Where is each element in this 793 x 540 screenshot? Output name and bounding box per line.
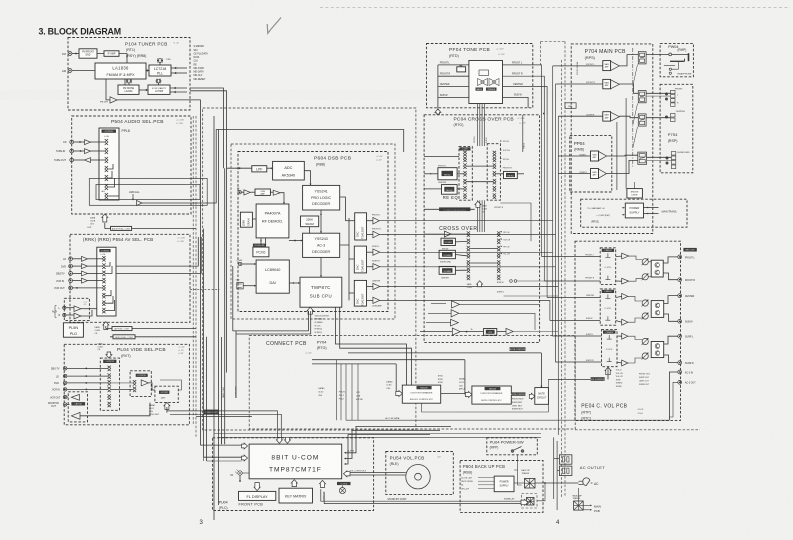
terminal AM input <box>68 69 72 73</box>
arrow control into audio pcb <box>102 214 108 222</box>
ic C-VOL front <box>600 248 616 285</box>
wire adc to yss241 <box>304 171 310 186</box>
block DAC TDA1305T 1 <box>355 213 367 240</box>
video right sub box <box>155 386 178 402</box>
wire ir to ucom <box>242 472 249 474</box>
wire cvol g1 links <box>616 255 622 257</box>
wire subcpu to expander bus 2 <box>340 307 412 385</box>
buffer dac LFE <box>373 297 380 303</box>
switch symbol <box>511 450 514 453</box>
jack sleeve bar <box>688 53 690 61</box>
arrow into box1 <box>396 391 403 397</box>
label AUDIO FUNC CONT <box>111 226 132 230</box>
buffer TAPE-IN <box>85 149 91 154</box>
wire corridor v7 tape cont <box>224 168 226 444</box>
switch bank upper right <box>493 151 496 156</box>
wire dac1 to buffers <box>367 220 373 222</box>
pcb P804 BACK UP PCB outline <box>460 461 543 513</box>
wire cvol front r in <box>544 280 600 282</box>
wire tone front r in <box>438 75 469 77</box>
label av selector IC <box>99 249 110 252</box>
arrow key matrix to ucom <box>291 480 297 487</box>
wire plug feed <box>545 482 579 484</box>
wire corridor right dashed pair top <box>541 41 566 43</box>
wire lower xover links <box>424 233 444 235</box>
wire bus h3 <box>312 363 396 365</box>
ic C-VOL center <box>600 289 616 325</box>
wire opt to dai <box>243 285 256 287</box>
wire cols link upper <box>467 165 493 167</box>
buffer audio out <box>137 200 143 205</box>
block TMP87C SUB CPU <box>300 277 342 307</box>
buffer CD <box>85 140 91 145</box>
switch bank video selector <box>108 366 111 371</box>
block SYNC PARITY <box>148 85 170 94</box>
wire dash right av <box>190 288 219 290</box>
pcb PL04 VIDE SEL PCB outline <box>64 344 189 425</box>
label VIDEO FUNC CONT <box>113 335 135 339</box>
buffer dac SURR R <box>373 264 380 270</box>
wire rf chain <box>241 191 244 193</box>
terminal LD video <box>63 374 66 377</box>
pcb PW04 outline <box>660 43 693 76</box>
wire long dashed bottom extension <box>575 429 700 431</box>
block PL5N PLD <box>63 323 83 337</box>
wire DVD path <box>73 265 82 267</box>
label video selector IC <box>103 360 116 363</box>
wire add-all arrow <box>132 194 134 199</box>
wire backup transf to mains <box>535 482 545 484</box>
switch bank audio selector <box>105 139 108 145</box>
wire main feed corridor a <box>552 66 554 252</box>
wire yss243 to subcpu <box>320 257 322 277</box>
wire re eq front r link <box>496 173 503 175</box>
wire bus v down to box2 <box>464 360 466 395</box>
label MUTE CONTROL wire <box>510 347 526 351</box>
wire video sw to mid <box>111 382 133 384</box>
wire right bundle into ucom 3 <box>345 435 430 465</box>
video monitor sub box <box>68 392 87 422</box>
wire relay4 to surround terms <box>647 156 672 158</box>
wire cvol front l in <box>542 256 601 258</box>
wire LA1836 to LC7218 <box>146 70 149 72</box>
terminal RF input <box>238 191 241 194</box>
wire main transf outs <box>583 504 590 506</box>
buffer AUX R <box>74 313 81 319</box>
wire VCR IN path <box>73 280 82 282</box>
wire corridor v dashed a <box>195 116 197 437</box>
wire monitor out path <box>67 396 68 398</box>
wire expander1 to vol control <box>422 379 549 412</box>
buffer TAPE-OUT <box>85 158 91 163</box>
jack contact 2 <box>669 68 671 70</box>
wire lpf input from corridor <box>227 167 252 169</box>
wire audio feedback loop inner <box>96 185 200 200</box>
block LC7218 PLL <box>149 65 171 76</box>
buffer lower 4 <box>452 328 460 335</box>
wire dac center run <box>380 286 559 288</box>
arrow vol pulse <box>344 471 351 477</box>
wire FM noise to sync parity <box>139 89 148 91</box>
wire tone front l in <box>438 64 469 66</box>
block main amp front r <box>603 79 611 88</box>
arrow standby into ucom <box>320 480 326 487</box>
wire AM input to LA1836 <box>72 70 95 72</box>
wire connect verticals down <box>335 360 337 421</box>
tone glyph bowtie left <box>478 79 488 86</box>
wire sub to pe04 <box>497 331 506 333</box>
arrow top into ucom <box>285 437 291 443</box>
wire mute control down to mute circuit <box>540 353 542 388</box>
buffer dac CENTER <box>373 283 380 289</box>
wire tuner L out to DSP corridor <box>190 88 223 168</box>
wire corridor v dashed b <box>192 116 194 424</box>
wire relay3 to center term <box>646 117 671 119</box>
arrow left wires into ucom <box>242 443 248 449</box>
wire buffer to pot g2 <box>628 296 642 301</box>
switch box upper left <box>459 147 472 201</box>
terminal DBS-TV video <box>63 367 66 370</box>
terminal COAX input <box>239 262 242 265</box>
wire relay diag 1 <box>633 65 638 87</box>
wire yss241 to yss243 <box>320 210 322 233</box>
tone glyph bowtie right <box>489 79 499 86</box>
buffer lower 2 <box>451 310 459 317</box>
wire lpf to adc <box>267 167 273 169</box>
wire jack tip <box>672 53 689 55</box>
pcb P554 AV SEL PCB outline <box>70 234 190 322</box>
arrow ucom to fl display <box>254 483 260 491</box>
wire av switch bus <box>106 262 110 266</box>
wire DBS/TV path <box>73 272 82 274</box>
pcb PF04 TONE PCB outline <box>427 44 533 108</box>
terminal front circles <box>665 93 667 95</box>
wire switch drop <box>514 455 518 470</box>
dash-dot relay control line <box>632 48 634 168</box>
ac outlet 1 <box>559 455 572 464</box>
block MUTE CIRCUIT <box>535 388 549 405</box>
xtal tag <box>337 482 351 485</box>
wire corridor v6 <box>221 337 223 444</box>
wire bridge link <box>634 182 636 189</box>
wire aux R to switches <box>66 314 74 316</box>
pcb outer dashed boundary A <box>203 108 416 430</box>
wire mains bus verticals <box>553 437 555 499</box>
block surr l amp <box>591 151 599 161</box>
block YSS243 AC-3 DECODER <box>303 233 340 257</box>
amp center triangle <box>611 112 620 121</box>
wire main inputs <box>553 65 603 67</box>
wire dac front r run <box>379 233 555 235</box>
relay RY3 <box>638 114 646 126</box>
pcb PU04 FRONT PCB outline <box>213 438 374 511</box>
pot front r <box>642 274 648 280</box>
block DAC TDA1305T 2 <box>354 246 366 273</box>
switch box upper right <box>487 144 500 201</box>
block 8BIT U-COM <box>249 444 342 479</box>
label AV FUNC CONT <box>112 327 132 331</box>
wire relay2 to front terms <box>646 92 671 94</box>
wire aux L to switches <box>66 307 74 309</box>
terminal block front <box>671 90 675 93</box>
transistor mute block g2 <box>651 301 664 318</box>
terminal AUX R <box>63 313 66 316</box>
wire tone out front r <box>503 76 545 115</box>
arrow control into av pcb <box>103 322 109 330</box>
wire corridor stubs into pcb top <box>221 437 223 444</box>
wire corridor right dashed v3 <box>561 60 563 497</box>
crystal X1 7.2M <box>157 60 159 62</box>
wire ac3 terminals down <box>669 372 677 420</box>
wire supply to transf <box>514 482 525 484</box>
terminal CD input <box>70 140 74 144</box>
wire VCR OUT path <box>73 287 103 289</box>
wire bus v down to box1 <box>395 364 397 394</box>
wire surr inputs <box>558 155 590 157</box>
wire tuner R out corridor <box>190 91 227 373</box>
terminal block center <box>671 113 675 117</box>
jack contact 3 <box>669 72 671 74</box>
wire main feed corridor b <box>555 84 557 267</box>
ac plug symbol <box>583 478 590 486</box>
buffer rf 2 <box>273 190 280 195</box>
block xover front <box>441 238 455 245</box>
wire vol pulse into ucom <box>349 472 406 474</box>
transformer relay aux <box>527 498 535 506</box>
pcb P104 TUNER PCB outline <box>68 38 190 111</box>
ic C-VOL surround <box>602 330 618 367</box>
wire corridor v5 <box>217 130 219 506</box>
wire buffers left feed <box>431 303 446 305</box>
wire surr r to relay <box>607 160 638 173</box>
block FM FRONT END <box>79 49 97 58</box>
terminal DBS/TV input <box>69 272 73 276</box>
arrow left wire2 into ucom <box>242 455 248 461</box>
wire main transf feed <box>577 488 579 501</box>
pcb P7S4 outline <box>660 84 693 173</box>
block surr r amp <box>591 169 599 179</box>
wire mute control h <box>348 352 541 354</box>
buffer VCR IN <box>82 278 88 283</box>
block tone control IC <box>469 61 503 104</box>
pcb outer dashed boundary B <box>231 144 395 319</box>
amp front r triangle <box>611 80 620 89</box>
terminal FM input <box>68 52 72 56</box>
switch bank lower left <box>467 231 470 236</box>
wire lower out 1 <box>460 303 541 305</box>
buffer LD <box>82 256 88 261</box>
wire demod bottom to pcxo <box>260 238 262 247</box>
pcb PE04 C VOL PCB outline <box>575 241 681 420</box>
wire cvol surr l in <box>553 252 602 336</box>
wire rf to demod <box>280 193 284 204</box>
wire main rail v1 <box>616 122 618 190</box>
wire corridor v4 <box>213 116 215 520</box>
wire LA1836 to FM noise <box>124 79 126 85</box>
block FL DISPLAY <box>239 491 276 500</box>
scan noise overlay <box>0 0 1 1</box>
wire tone sub w in <box>438 96 469 98</box>
bus VIDEO CONT outline <box>167 411 278 437</box>
terminal SUB-W out <box>678 319 682 323</box>
pot front l <box>642 259 648 265</box>
terminal FRONT L out <box>678 255 682 259</box>
block PCXO <box>253 247 269 257</box>
wire tone bundle into crossover <box>477 104 479 147</box>
ic av selector switch box <box>97 247 116 316</box>
wire FM input to front end <box>72 53 79 55</box>
wire cvol g2 links <box>616 296 622 297</box>
wire mid to right box <box>148 383 155 390</box>
block xover surround <box>439 250 455 258</box>
buffer cvol subw <box>622 319 628 325</box>
wire lower cols link <box>470 248 497 250</box>
block main amp center <box>603 112 611 121</box>
buffer sub out <box>506 328 513 334</box>
block LA1836 FM/AM IF & MPX <box>95 63 146 79</box>
pcb CONNECT PCB dashed outline <box>249 336 575 429</box>
wire xover cont <box>424 208 475 210</box>
buffer cvol front r <box>622 278 629 284</box>
label pcxo tag <box>253 244 266 247</box>
wire LA1836 to det buffer <box>106 79 110 100</box>
wire cvol g3 links <box>617 335 622 337</box>
balance box <box>457 67 466 72</box>
arrow into box2 <box>465 392 472 398</box>
wire sync parity control <box>170 87 187 89</box>
transistor mute block g1 <box>651 260 663 277</box>
label xover reeq cont <box>439 207 470 211</box>
connector OPT input <box>237 283 243 289</box>
wire corridor right dashed v1 <box>540 42 542 65</box>
arrow xover cont up <box>475 201 481 207</box>
block ADC AK5340 <box>273 161 305 180</box>
wire buffer to pot g1 <box>629 256 642 259</box>
arrow video cont into box <box>164 402 170 409</box>
terminal TAPE-OUT <box>70 158 74 162</box>
pcb P704 MAIN PCB outline <box>571 44 653 234</box>
wire surr to right 1 <box>517 280 558 282</box>
switch bank av selector <box>102 256 105 261</box>
arrow lower cont up <box>477 281 483 287</box>
jack ring bar <box>670 60 685 62</box>
wire amp fr to relay <box>619 84 638 93</box>
buffer monitor 1 <box>71 394 79 400</box>
wire surr to right 2 <box>504 295 559 297</box>
buffer dac FRONT R <box>373 231 379 238</box>
buffer monitor 2 <box>71 412 80 419</box>
arrow vol control into cvol <box>605 367 611 375</box>
wire subcpu to expander bus 1 <box>335 307 406 385</box>
junction pair lower <box>510 280 513 283</box>
wire CD path <box>74 141 85 143</box>
buffer amp FM DET <box>110 97 117 103</box>
wire coax to dai <box>242 263 256 265</box>
wire box1 to box2 <box>441 393 465 395</box>
wire corridor v8 <box>235 331 237 398</box>
arrow into sub cpu bottom <box>307 307 313 314</box>
block LPF <box>252 166 267 172</box>
wire upper crossover in3 <box>424 188 441 190</box>
wire corridor right dashed v2 <box>564 42 566 498</box>
aux input sub box <box>64 298 89 320</box>
wire re eq links <box>457 173 463 175</box>
wire switch outputs to bus <box>108 164 113 169</box>
block lpf sub <box>484 329 497 336</box>
wire surr l to relay <box>607 154 638 157</box>
wire yss243 right to dac bus <box>340 218 349 245</box>
wire supply to trans <box>644 207 659 209</box>
wire sub w chain <box>420 331 452 333</box>
terminal TAPE-IN <box>70 149 74 153</box>
pcb P604 DSB PCB outline <box>238 152 388 312</box>
arrow control into video switch <box>106 352 112 358</box>
pcb PC04 CROSS OVER PCB outline <box>424 115 539 343</box>
terminal SURR L out <box>678 334 682 338</box>
buffer dac FRONT L <box>373 217 379 224</box>
relay RY2 <box>638 91 646 103</box>
buffer DVD <box>82 264 88 269</box>
wire amp c to relay <box>619 116 638 118</box>
wire av func cont <box>105 326 107 329</box>
handwritten check mark <box>267 18 281 34</box>
wire front end to IF amp <box>97 53 104 55</box>
wire corridor bottom h1 <box>214 433 541 435</box>
wire dac feeds <box>346 220 355 222</box>
wire dac3 to buffers <box>367 286 373 288</box>
wire relay diag 3 <box>633 127 638 148</box>
block port expander IC87 <box>402 385 440 403</box>
wire sub cpu bottom bus <box>308 311 310 331</box>
jack contact line <box>664 65 675 67</box>
terminal LD input <box>69 257 73 261</box>
terminal AUX L <box>63 306 66 309</box>
wire buffer to pot g3 <box>628 336 642 339</box>
wire tone out front l <box>503 65 542 115</box>
switch bank upper left <box>463 151 466 156</box>
relay RY1 <box>638 52 646 64</box>
wire main rail v2 <box>625 98 627 189</box>
wire TAPE-IN path <box>74 150 85 152</box>
tone glyph labels <box>476 88 484 91</box>
wire dac lfe run <box>380 299 550 301</box>
wire corridor to cvol subw <box>549 300 551 320</box>
arrow bus into U-COM top <box>276 437 282 443</box>
wire LD path <box>73 258 82 260</box>
label monitor amp IC <box>71 402 85 405</box>
wire audio feedback loop outer <box>108 195 119 197</box>
terminal AC-3 OUT <box>678 380 682 384</box>
block PA4007A RF DEMOD <box>256 204 289 238</box>
block main amp front l <box>603 61 611 71</box>
buffer crossover top <box>444 231 451 237</box>
wire tone center in <box>438 85 469 87</box>
buffer dac SURR L <box>373 249 380 255</box>
wire corridor v3 <box>206 337 208 461</box>
block 256K SRAM small <box>301 216 319 227</box>
wire corridor bottom h2 <box>218 436 541 438</box>
block 256K SRAM left <box>240 212 252 227</box>
wire IF amp to LA1836 <box>119 54 127 64</box>
wire monitor buffer2 input <box>80 403 150 416</box>
wire main feed corridor c <box>557 116 559 435</box>
xtal circle <box>339 488 345 494</box>
pot subw <box>642 313 648 319</box>
buffer AUX L <box>74 306 81 312</box>
block LC89040 DAI <box>256 260 289 293</box>
wire corridor v2 <box>203 229 205 458</box>
label video right IC <box>159 391 169 394</box>
